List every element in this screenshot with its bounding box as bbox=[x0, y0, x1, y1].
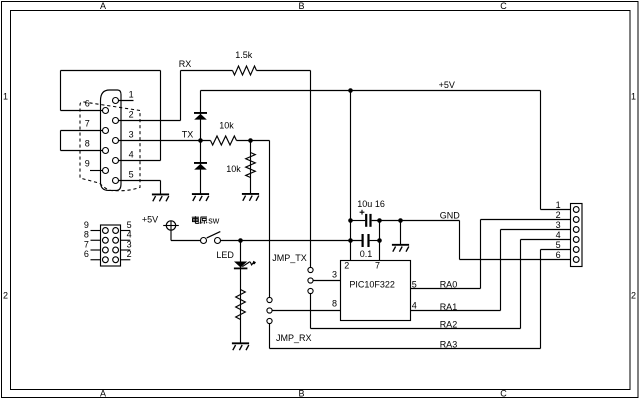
svg-text:0.1: 0.1 bbox=[360, 249, 373, 259]
svg-text:TX: TX bbox=[182, 130, 194, 140]
svg-text:RA3: RA3 bbox=[440, 339, 458, 349]
svg-text:RA1: RA1 bbox=[440, 302, 458, 312]
svg-text:3: 3 bbox=[129, 130, 134, 140]
svg-text:+5V: +5V bbox=[439, 80, 455, 90]
svg-text:3: 3 bbox=[332, 269, 337, 279]
svg-text:B: B bbox=[298, 1, 304, 11]
svg-text:1: 1 bbox=[631, 92, 636, 102]
svg-text:10u 16: 10u 16 bbox=[357, 199, 385, 209]
svg-text:2: 2 bbox=[127, 249, 132, 259]
svg-text:A: A bbox=[100, 1, 106, 11]
svg-text:RX: RX bbox=[179, 59, 192, 69]
svg-text:10k: 10k bbox=[219, 120, 234, 130]
svg-text:2: 2 bbox=[344, 260, 349, 270]
svg-text:JMP_TX: JMP_TX bbox=[272, 253, 307, 263]
svg-text:RA2: RA2 bbox=[440, 320, 458, 330]
svg-text:JMP_RX: JMP_RX bbox=[276, 333, 312, 343]
svg-text:1: 1 bbox=[129, 90, 134, 100]
svg-text:10k: 10k bbox=[226, 164, 241, 174]
svg-text:B: B bbox=[298, 389, 304, 399]
svg-text:7: 7 bbox=[375, 260, 380, 270]
svg-text:2: 2 bbox=[556, 210, 561, 220]
svg-text:sw: sw bbox=[208, 215, 220, 225]
svg-text:5: 5 bbox=[127, 220, 132, 230]
svg-text:9: 9 bbox=[85, 159, 90, 169]
svg-text:4: 4 bbox=[129, 150, 134, 160]
svg-text:4: 4 bbox=[127, 230, 132, 240]
svg-text:C: C bbox=[500, 389, 507, 399]
svg-text:5: 5 bbox=[412, 280, 417, 290]
svg-text:8: 8 bbox=[332, 298, 337, 308]
svg-text:C: C bbox=[500, 1, 507, 11]
svg-text:9: 9 bbox=[84, 220, 89, 230]
svg-text:2: 2 bbox=[129, 110, 134, 120]
svg-text:RA0: RA0 bbox=[440, 279, 458, 289]
svg-text:GND: GND bbox=[440, 210, 461, 220]
svg-text:8: 8 bbox=[84, 230, 89, 240]
svg-text:8: 8 bbox=[85, 139, 90, 149]
svg-text:4: 4 bbox=[556, 230, 561, 240]
svg-text:6: 6 bbox=[84, 249, 89, 259]
svg-text:6: 6 bbox=[556, 250, 561, 260]
svg-text:2: 2 bbox=[631, 291, 636, 301]
svg-text:5: 5 bbox=[556, 240, 561, 250]
svg-text:1: 1 bbox=[556, 200, 561, 210]
svg-text:+5V: +5V bbox=[142, 214, 158, 224]
svg-text:2: 2 bbox=[3, 291, 8, 301]
svg-text:5: 5 bbox=[129, 170, 134, 180]
svg-text:6: 6 bbox=[85, 99, 90, 109]
svg-text:LED: LED bbox=[216, 250, 234, 260]
svg-text:7: 7 bbox=[85, 119, 90, 129]
svg-text:7: 7 bbox=[84, 239, 89, 249]
svg-text:3: 3 bbox=[127, 239, 132, 249]
svg-text:A: A bbox=[100, 389, 106, 399]
svg-text:1: 1 bbox=[3, 92, 8, 102]
svg-text:3: 3 bbox=[556, 220, 561, 230]
svg-text:1.5k: 1.5k bbox=[235, 50, 253, 60]
svg-text:PIC10F322: PIC10F322 bbox=[349, 279, 395, 289]
svg-text:4: 4 bbox=[412, 301, 417, 311]
